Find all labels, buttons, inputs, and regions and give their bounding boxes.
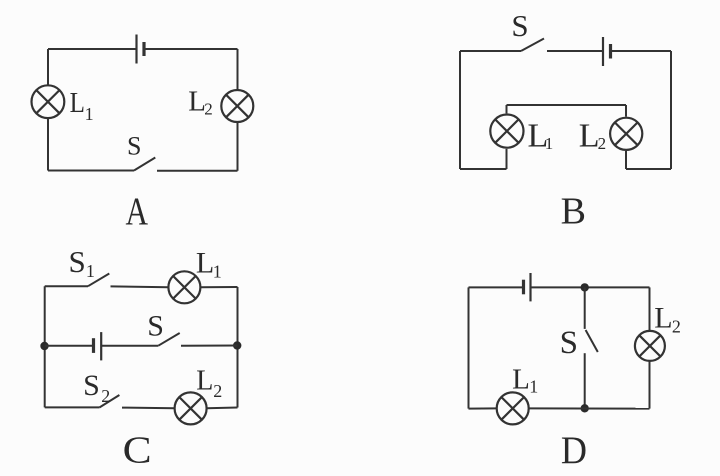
wire A left lower [47,118,49,170]
wire B top-mid [547,50,603,52]
svg-text:1: 1 [529,377,538,397]
wire D switch lower [584,353,586,408]
svg-text:C: C [123,430,152,472]
wire B left vertical [459,51,461,169]
svg-text:B: B [561,190,586,232]
switch S (A) blade [134,158,155,171]
battery B long plate [602,37,604,66]
svg-text:2: 2 [672,317,681,337]
wire C left vertical [44,286,46,407]
svg-text:S: S [147,309,164,342]
wire B right vertical [670,51,672,169]
svg-text:2: 2 [101,386,110,406]
wire C middle branch left [45,345,94,347]
wire D top-mid [531,286,650,288]
svg-text:L: L [512,364,530,396]
wire C top branch left [45,285,88,287]
wire B top-right [611,50,672,52]
wire D switch upper [584,287,586,329]
wire D bottom-left [469,407,497,409]
svg-text:2: 2 [204,100,213,119]
svg-text:S: S [127,131,141,160]
lamp L1 (B) [490,115,523,148]
wire B bottom-left [460,168,507,170]
wire B bottom-right [626,168,671,170]
battery B short plate [609,44,612,59]
wire C bottom branch mid [122,407,175,410]
wire C bottom branch right [207,407,238,410]
wire D right lower [649,361,651,409]
wire C top branch mid [111,285,169,288]
wire A left upper [47,49,49,85]
svg-text:2: 2 [598,134,607,153]
battery A long plate [135,35,137,64]
wire B stub below L1 [506,149,508,169]
wire A top-right [144,48,238,50]
battery C long plate [100,332,102,360]
wire D top-left [469,286,524,288]
svg-text:L: L [196,366,213,397]
wire C middle branch right [181,345,238,347]
lamp L1 (D) [497,392,529,424]
svg-text:L: L [579,117,600,154]
wire A right upper [237,49,239,90]
battery C short plate [92,338,95,353]
lamp L2 (C) [175,392,207,424]
wire C bottom branch left [45,406,100,408]
switch S (C) blade [158,333,179,346]
svg-text:D: D [561,429,587,472]
switch S (D) blade [586,330,598,352]
wire D right upper [649,287,651,331]
lamp L1 (A) [32,85,65,118]
svg-text:L: L [196,247,214,280]
node D top junction [581,283,589,291]
wire B stub above L2 [625,105,627,117]
svg-text:S: S [69,244,86,279]
wire B stub below L2 [625,151,627,169]
lamp L1 (C) [168,271,200,303]
wire C right vertical [237,287,239,408]
battery D long plate [529,273,531,301]
battery A short plate [142,42,145,56]
wire A bottom-left [48,170,134,172]
wire B top-left [460,50,521,52]
svg-text:1: 1 [213,262,222,282]
switch S1 (C) blade [88,274,109,287]
wire A top-left [48,48,137,50]
wire D bottom-right [529,407,650,409]
wire B inner horizontal [507,104,627,106]
svg-text:1: 1 [86,261,95,281]
wire D left vertical [468,287,470,408]
lamp L2 (B) [610,118,642,150]
wire A right lower [237,122,239,171]
node D bottom junction [581,404,589,412]
wire B stub above L1 [506,105,508,113]
svg-text:L: L [70,87,85,119]
lamp L2 (D) [635,331,665,361]
svg-text:L: L [654,302,672,335]
battery D short plate [522,280,525,295]
svg-text:2: 2 [213,381,222,401]
node C left junction [40,342,48,350]
svg-text:S: S [511,8,528,43]
node C right junction [233,341,241,349]
switch S2 (C) blade [100,395,120,407]
svg-text:1: 1 [85,104,94,124]
svg-text:S: S [560,325,578,361]
switch S (B) blade [521,39,544,52]
wire C top branch right [200,286,237,288]
wire C middle branch mid [101,345,158,347]
wire A bottom-right [157,170,238,172]
svg-text:S: S [83,369,100,402]
lamp L2 (A) [221,90,253,122]
svg-text:1: 1 [545,134,554,153]
svg-text:A: A [126,190,149,233]
